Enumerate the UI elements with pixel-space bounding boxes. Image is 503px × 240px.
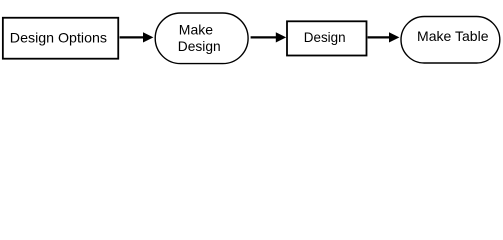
terminator Make Design — [155, 13, 248, 64]
arrow 3 — [368, 32, 400, 42]
svg-text:Design: Design — [304, 29, 346, 45]
process box Design — [287, 21, 367, 55]
svg-text:Design Options: Design Options — [10, 29, 107, 45]
arrow 1 — [120, 32, 154, 42]
svg-text:Make: Make — [179, 22, 213, 38]
svg-text:Make Table: Make Table — [417, 28, 489, 44]
svg-text:Design: Design — [178, 38, 221, 54]
process box Design Options — [3, 18, 118, 59]
arrow 2 — [251, 32, 287, 42]
terminator Make Table — [401, 17, 500, 64]
